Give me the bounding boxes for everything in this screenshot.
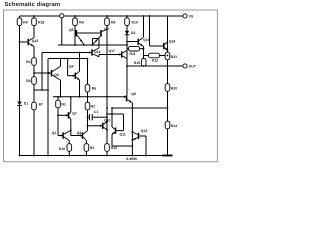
svg-text:Q4: Q4: [69, 64, 74, 68]
svg-text:OUT: OUT: [189, 65, 197, 69]
svg-text:R7: R7: [39, 103, 43, 107]
svg-text:R11: R11: [130, 52, 136, 56]
svg-text:Q1: Q1: [52, 131, 57, 135]
svg-text:R4: R4: [23, 20, 27, 24]
svg-text:Q18: Q18: [169, 39, 176, 43]
svg-text:VS: VS: [189, 15, 194, 19]
svg-text:S-4595: S-4595: [126, 157, 137, 161]
svg-text:D1: D1: [24, 102, 28, 106]
svg-text:R12: R12: [152, 58, 158, 62]
svg-text:R9: R9: [79, 20, 83, 24]
svg-text:Q10: Q10: [104, 119, 111, 123]
svg-text:Q16: Q16: [143, 38, 150, 42]
svg-text:R21: R21: [171, 55, 177, 59]
svg-text:C1: C1: [94, 110, 98, 114]
svg-text:R10: R10: [59, 147, 65, 151]
svg-text:Q8: Q8: [131, 92, 136, 96]
svg-text:R5: R5: [92, 86, 96, 90]
svg-text:R6: R6: [26, 60, 30, 64]
svg-text:R1: R1: [62, 102, 66, 106]
svg-text:R10: R10: [132, 20, 138, 24]
svg-text:Q7: Q7: [72, 112, 77, 116]
svg-text:Q5: Q5: [69, 28, 74, 32]
svg-text:Q6: Q6: [54, 73, 59, 77]
svg-text:R2: R2: [91, 104, 95, 108]
svg-text:Q11: Q11: [120, 132, 126, 136]
svg-text:R18: R18: [38, 20, 44, 24]
svg-text:R3: R3: [90, 146, 94, 150]
svg-text:R8: R8: [26, 79, 30, 83]
svg-text:Q9: Q9: [104, 27, 109, 31]
svg-text:Q13: Q13: [141, 129, 148, 133]
svg-text:Q12: Q12: [32, 39, 39, 43]
svg-text:R20: R20: [171, 87, 177, 91]
svg-text:Q2: Q2: [77, 131, 82, 135]
svg-text:R12: R12: [111, 146, 117, 150]
svg-text:R15: R15: [134, 61, 140, 65]
svg-text:Q14: Q14: [94, 50, 101, 54]
svg-text:D2: D2: [131, 31, 135, 35]
svg-text:Q17: Q17: [109, 49, 116, 53]
svg-text:R8: R8: [111, 20, 115, 24]
svg-text:R14: R14: [171, 124, 177, 128]
